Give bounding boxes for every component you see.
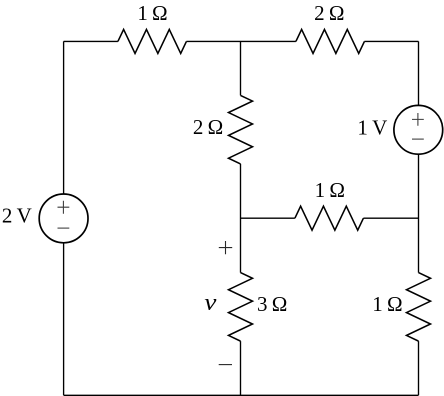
svg-text:1 Ω: 1 Ω: [315, 178, 345, 202]
svg-text:2 Ω: 2 Ω: [314, 1, 344, 25]
svg-text:1 V: 1 V: [357, 115, 387, 139]
svg-text:3 Ω: 3 Ω: [257, 292, 287, 316]
svg-text:2 V: 2 V: [2, 204, 32, 228]
svg-text:2 Ω: 2 Ω: [193, 115, 223, 139]
svg-text:v: v: [204, 290, 216, 316]
svg-text:1 Ω: 1 Ω: [137, 1, 167, 25]
svg-text:1 Ω: 1 Ω: [372, 292, 402, 316]
